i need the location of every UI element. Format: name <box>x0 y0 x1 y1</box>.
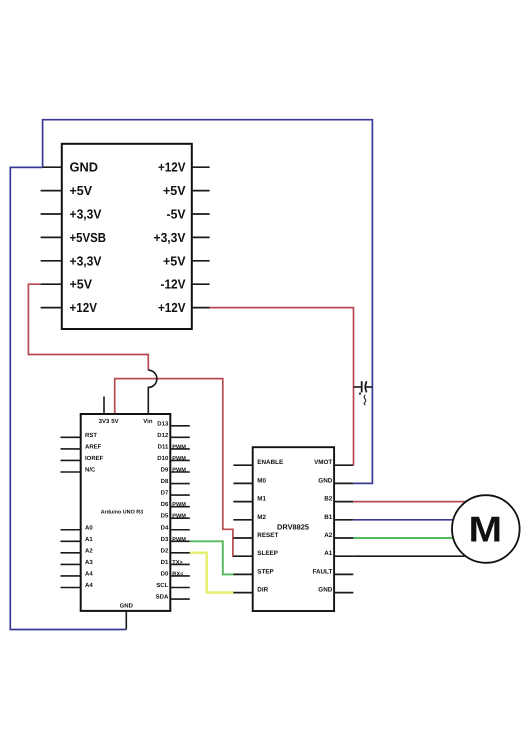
svg-text:ENABLE: ENABLE <box>257 459 283 466</box>
svg-text:D10: D10 <box>157 455 169 462</box>
Arduino pin A1 <box>61 536 94 543</box>
svg-text:D12: D12 <box>157 432 169 439</box>
svg-text:A3: A3 <box>85 559 93 566</box>
svg-text:GND: GND <box>318 477 332 484</box>
Arduino pin D0 <box>161 570 190 577</box>
Arduino pin A0 <box>61 524 94 531</box>
PSU pin +12V (right) <box>158 160 210 175</box>
wire STEP (green): Arduino D3 to DRV8825 STEP <box>190 541 234 574</box>
DRV8825 pin DIR <box>233 587 268 594</box>
wire +5V (red): PSU +5V to Arduino Vin <box>28 284 148 370</box>
PSU pin +3,3V (left) <box>41 207 102 222</box>
PSU pin +12V (left) <box>41 300 98 315</box>
svg-text:D2: D2 <box>161 547 169 554</box>
Arduino pin A2 <box>61 547 94 554</box>
svg-text:D13: D13 <box>157 420 169 427</box>
svg-text:A0: A0 <box>85 524 93 531</box>
Arduino pin A4 <box>61 570 94 577</box>
power supply PSU box <box>62 144 192 329</box>
svg-text:+12V: +12V <box>158 160 186 175</box>
svg-text:M0: M0 <box>257 477 266 484</box>
Arduino U1 box <box>81 414 171 611</box>
svg-text:SCL: SCL <box>156 582 168 589</box>
svg-text:PWM: PWM <box>172 514 186 520</box>
svg-text:PWM: PWM <box>172 444 186 450</box>
svg-text:STEP: STEP <box>257 568 273 575</box>
wire 5V (red): Arduino 5V to DRV8825 RESET/SLEEP <box>115 379 234 557</box>
DRV8825 pin A1 (right) <box>324 550 353 557</box>
PSU pin +5V (left) <box>41 183 93 198</box>
svg-text:+3,3V: +3,3V <box>70 207 102 222</box>
svg-text:PWM: PWM <box>172 468 186 474</box>
Arduino pin D5 <box>161 513 190 520</box>
wire +12V (red): PSU +12V to DRV8825 VMOT <box>210 308 354 466</box>
svg-text:GND: GND <box>70 160 99 175</box>
Arduino pin A3 <box>61 559 94 566</box>
DRV8825 pin GND (right) <box>318 587 353 594</box>
svg-text:+5V: +5V <box>163 253 186 268</box>
svg-text:-5V: -5V <box>167 207 186 222</box>
DRV8825 pin STEP <box>233 568 273 575</box>
Arduino pin D9 <box>161 467 190 474</box>
Arduino pin D2 <box>161 547 190 554</box>
Arduino pin SDA <box>156 594 190 601</box>
capacitor C1 polarity dot <box>359 393 361 395</box>
DRV8825 pin RESET <box>233 532 278 539</box>
svg-text:D11: D11 <box>158 443 169 450</box>
PSU pin -12V (right) <box>161 277 210 292</box>
svg-text:+3,3V: +3,3V <box>154 230 186 245</box>
svg-text:D4: D4 <box>161 524 169 531</box>
svg-text:-12V: -12V <box>161 277 186 292</box>
Arduino pin D8 <box>161 478 190 485</box>
Arduino pin N/C <box>61 467 97 474</box>
PSU pin +12V (right 2) <box>158 300 210 315</box>
svg-text:RESET: RESET <box>257 532 278 539</box>
svg-text:A2: A2 <box>324 532 333 539</box>
svg-text:A1: A1 <box>324 550 333 557</box>
svg-text:+5VSB: +5VSB <box>70 230 107 245</box>
Arduino pin D13 <box>157 420 190 427</box>
capacitor C1 lead right <box>366 386 373 388</box>
PSU pin +5VSB (left) <box>41 230 106 245</box>
Arduino pin IOREF <box>61 455 104 462</box>
svg-text:TX>: TX> <box>172 560 183 566</box>
Arduino pin D6 <box>161 501 190 508</box>
svg-text:GND: GND <box>120 603 134 610</box>
svg-text:SLEEP: SLEEP <box>257 550 278 557</box>
svg-text:M1: M1 <box>257 496 266 503</box>
svg-text:N/C: N/C <box>85 467 96 474</box>
svg-text:PWM: PWM <box>172 537 186 543</box>
Arduino pin RST <box>61 432 98 439</box>
PSU pin +5V (right 2) <box>163 253 210 268</box>
svg-text:SDA: SDA <box>156 594 169 601</box>
svg-text:Arduino UNO R3: Arduino UNO R3 <box>101 510 144 516</box>
svg-text:+5V: +5V <box>70 183 93 198</box>
PSU pin +5V (right) <box>163 183 210 198</box>
wire GND net (blue): PSU GND up over top to DRV8825 GND <box>43 120 373 484</box>
svg-text:A4: A4 <box>85 570 93 577</box>
DRV8825 pin FAULT (right) <box>312 568 353 575</box>
svg-text:D1: D1 <box>161 559 169 566</box>
Arduino pin 5V (top) <box>111 418 118 425</box>
svg-text:M: M <box>469 508 503 549</box>
svg-text:VMOT: VMOT <box>314 459 332 466</box>
wire Vin hop: black wire hop over red 5V wire, then down to Arduino Vin <box>148 370 157 414</box>
Arduino pin 3V3 (top) <box>99 397 110 425</box>
svg-text:B1: B1 <box>324 514 333 521</box>
svg-text:A4: A4 <box>85 582 93 589</box>
svg-text:+12V: +12V <box>70 300 98 315</box>
svg-text:D9: D9 <box>161 467 169 474</box>
DRV8825 pin A2 (right) <box>324 532 353 539</box>
svg-text:B2: B2 <box>324 496 333 503</box>
Arduino pin D11 <box>158 443 190 450</box>
Arduino pin D10 <box>157 455 190 462</box>
svg-text:GND: GND <box>318 587 332 594</box>
svg-text:+5V: +5V <box>70 277 93 292</box>
DRV8825 pin SLEEP <box>233 550 278 557</box>
PSU pin GND (left) <box>43 160 98 175</box>
svg-text:M2: M2 <box>257 514 266 521</box>
svg-text:A2: A2 <box>85 547 93 554</box>
svg-text:PWM: PWM <box>172 502 186 508</box>
Arduino pin D7 <box>161 490 190 497</box>
svg-text:D6: D6 <box>161 501 169 508</box>
DRV8825 pin B2 (right) <box>324 496 353 503</box>
wire A1 (black): DRV8825 A1 to motor <box>353 555 486 557</box>
svg-text:RST: RST <box>85 432 97 439</box>
wire B2 (red): DRV8825 B2 to motor <box>353 501 486 503</box>
svg-text:D3: D3 <box>161 536 169 543</box>
capacitor C1 value label squiggle <box>364 395 366 405</box>
svg-text:PWM: PWM <box>172 456 186 462</box>
svg-text:Vin: Vin <box>143 418 153 425</box>
wire DIR (yellow): Arduino D2 to DRV8825 DIR <box>190 553 234 593</box>
svg-text:DRV8825: DRV8825 <box>277 522 309 531</box>
svg-text:A1: A1 <box>85 536 93 543</box>
PSU pin +5V (left 2) <box>41 277 93 292</box>
svg-text:RX<: RX< <box>172 571 184 577</box>
DRV8825 pin B1 (right) <box>324 514 353 521</box>
svg-text:DIR: DIR <box>257 587 268 594</box>
wire A2 (green): DRV8825 A2 to motor <box>353 537 486 539</box>
svg-text:3V3: 3V3 <box>99 418 110 425</box>
capacitor C1 lead left <box>354 386 362 388</box>
Arduino pin D1 <box>161 559 190 566</box>
DRV8825 pin M0 <box>233 477 266 484</box>
DRV8825 pin GND (right) <box>318 477 353 484</box>
capacitor C1 plate right (curved) <box>365 381 366 392</box>
wire B1 (blue): DRV8825 B1 to motor <box>353 519 486 521</box>
svg-text:FAULT: FAULT <box>312 568 332 575</box>
svg-text:IOREF: IOREF <box>85 455 104 462</box>
Arduino pin GND (bottom) <box>120 603 134 630</box>
motor M1 circle <box>452 495 520 563</box>
Arduino pin A4 <box>61 582 94 589</box>
svg-text:+12V: +12V <box>158 300 186 315</box>
capacitor C1 plate left <box>361 381 363 392</box>
Arduino pin SCL <box>156 582 190 589</box>
svg-text:5V: 5V <box>111 418 118 425</box>
Arduino pin D12 <box>157 432 190 439</box>
Arduino pin D3 <box>161 536 190 543</box>
DRV8825 pin M1 <box>233 496 266 503</box>
svg-text:AREF: AREF <box>85 443 102 450</box>
Arduino pin Vin (top) <box>143 418 153 425</box>
driver U2 DRV8825 box <box>253 447 334 611</box>
wire GND net (blue): PSU GND down left side to Arduino GND <box>10 167 126 629</box>
Arduino pin AREF <box>61 443 102 450</box>
svg-text:D5: D5 <box>161 513 169 520</box>
DRV8825 pin VMOT (right) <box>314 459 353 466</box>
svg-text:D7: D7 <box>161 490 169 497</box>
svg-text:D8: D8 <box>161 478 169 485</box>
PSU pin +3,3V (right) <box>154 230 210 245</box>
PSU pin -5V (right) <box>167 207 210 222</box>
DRV8825 pin ENABLE <box>233 459 283 466</box>
svg-text:D0: D0 <box>161 570 169 577</box>
Arduino pin D4 <box>161 524 190 531</box>
svg-text:+5V: +5V <box>163 183 186 198</box>
PSU pin +3,3V (left 2) <box>41 253 102 268</box>
svg-text:+3,3V: +3,3V <box>70 253 102 268</box>
DRV8825 pin M2 <box>233 514 266 521</box>
